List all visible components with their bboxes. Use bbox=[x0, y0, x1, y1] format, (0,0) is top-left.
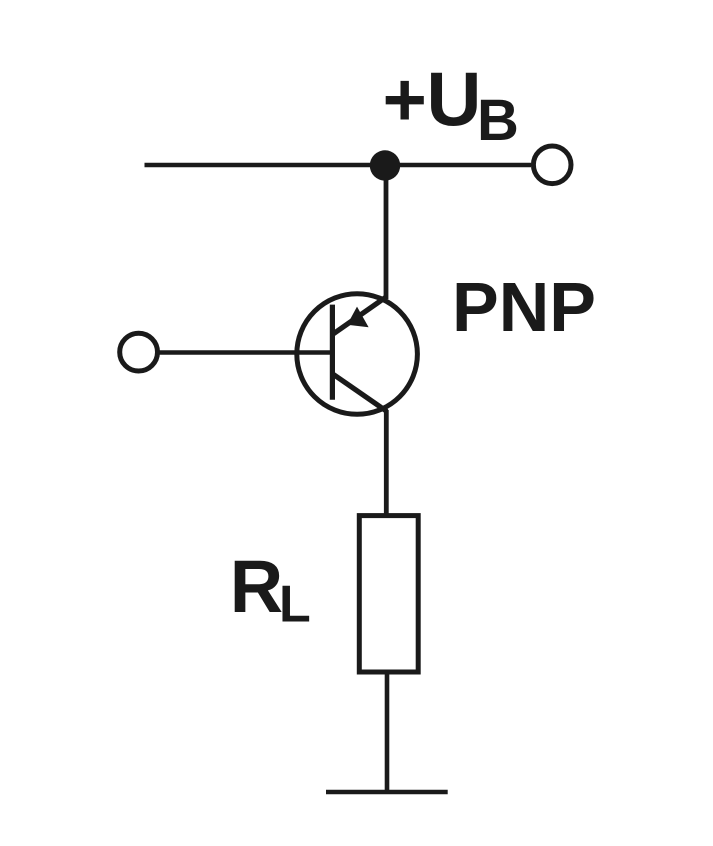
ground bbox=[326, 790, 448, 795]
wire collector to resistor bbox=[384, 410, 389, 515]
node junction dot on +UB rail bbox=[370, 150, 400, 180]
terminal +UB (open circle, right) bbox=[533, 146, 571, 184]
label PNP bbox=[452, 268, 596, 346]
transistor Q1 circle bbox=[297, 294, 418, 415]
svg-text:R: R bbox=[230, 545, 283, 628]
wire top supply rail bbox=[145, 163, 532, 168]
svg-text:+: + bbox=[383, 57, 427, 142]
terminal base input (open circle, left) bbox=[120, 333, 158, 371]
label +UB bbox=[383, 57, 519, 153]
svg-text:U: U bbox=[427, 57, 482, 142]
label RL bbox=[230, 545, 311, 634]
transistor emitter arrow (PNP, points to base) bbox=[347, 307, 368, 328]
transistor emitter diagonal bbox=[332, 297, 386, 335]
wire resistor to ground bbox=[385, 672, 390, 792]
transistor base bar bbox=[330, 305, 335, 400]
wire emitter to rail bbox=[384, 165, 389, 299]
transistor collector diagonal bbox=[332, 374, 386, 412]
svg-text:PNP: PNP bbox=[452, 268, 596, 346]
wire base input bbox=[158, 350, 333, 354]
resistor RL body bbox=[359, 516, 418, 672]
svg-text:B: B bbox=[477, 88, 519, 153]
svg-text:L: L bbox=[279, 576, 311, 634]
